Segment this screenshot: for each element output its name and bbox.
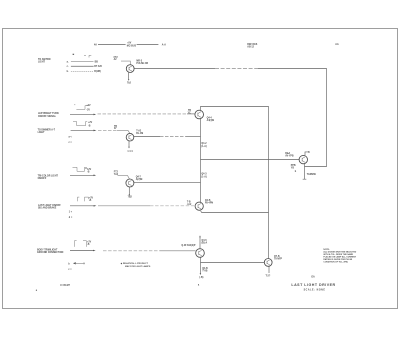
svg-text:BT A/B: BT A/B <box>94 65 102 68</box>
svg-text:AB-12: AB-12 <box>247 45 254 48</box>
svg-text:1 4 4: 1 4 4 <box>127 150 133 153</box>
svg-text:ON/OFF SIGNAL: ON/OFF SIGNAL <box>38 115 57 118</box>
svg-text:BB: BB <box>95 61 99 63</box>
svg-text:A-A: A-A <box>162 44 166 47</box>
svg-text:-2V: -2V <box>86 109 90 111</box>
svg-text:+2V: +2V <box>86 105 91 107</box>
svg-text:4A: 4A <box>94 44 97 47</box>
svg-text:MAY FOR LIGHT LAMPS: MAY FOR LIGHT LAMPS <box>125 265 151 268</box>
svg-text:LIGHT: LIGHT <box>38 132 45 134</box>
svg-text:B(1/B): B(1/B) <box>94 71 101 73</box>
svg-text:-B: -B <box>87 244 90 246</box>
svg-text:A4(4)N: A4(4)N <box>207 119 215 122</box>
svg-text:SIG AND BRAKE: SIG AND BRAKE <box>38 207 57 210</box>
svg-text:-B: -B <box>88 126 91 128</box>
svg-text:A(V)M: A(V)M <box>136 178 143 181</box>
svg-text:/-A2: /-A2 <box>187 203 192 206</box>
svg-text:TARN/W: TARN/W <box>307 173 317 176</box>
svg-text:(B)-A: (B)-A <box>202 241 208 244</box>
svg-text:Q4-3: Q4-3 <box>201 173 207 176</box>
svg-text:(1-A): (1-A) <box>201 145 206 148</box>
svg-text:Q4-2: Q4-2 <box>201 142 207 145</box>
svg-text:CONDITION OF TOL. (PB): CONDITION OF TOL. (PB) <box>323 262 348 264</box>
svg-text:◆ RELATION: L PRODUCT: ◆ RELATION: L PRODUCT <box>120 262 149 265</box>
svg-text:PULSE 2M: PULSE 2M <box>136 63 148 65</box>
svg-text:LAST LIGHT ON/OFF: LAST LIGHT ON/OFF <box>38 204 61 207</box>
svg-text:GROUND CONNECTION: GROUND CONNECTION <box>37 252 64 254</box>
svg-text:7A/VFP: 7A/VFP <box>274 258 283 261</box>
svg-text:TO DIMMER A-T: TO DIMMER A-T <box>38 128 56 131</box>
svg-text:Q-W FH2(2)P: Q-W FH2(2)P <box>181 245 196 247</box>
svg-text:7B2: 7B2 <box>128 197 133 199</box>
svg-text:T-2?: T-2? <box>266 275 271 277</box>
svg-text:GA: GA <box>311 276 315 279</box>
svg-text:C=/B-M?: C=/B-M? <box>60 284 70 287</box>
svg-text:b.: b. <box>67 71 69 73</box>
svg-text:YB: YB <box>291 168 295 170</box>
svg-text:TO AN/TRN: TO AN/TRN <box>38 58 51 61</box>
svg-text:-B: -B <box>89 200 92 202</box>
svg-text:+5V: +5V <box>127 43 132 45</box>
svg-text:YC: YC <box>188 113 192 115</box>
svg-text:SCALE: NONE: SCALE: NONE <box>304 289 326 292</box>
svg-text:AV-4PN: AV-4PN <box>205 202 213 205</box>
svg-text:+2V: +2V <box>88 122 93 124</box>
svg-text:ON/OFF: ON/OFF <box>38 178 47 180</box>
svg-text:(-B): (-B) <box>199 277 203 279</box>
svg-text:MC-BUS: MC-BUS <box>127 45 137 47</box>
svg-text:AV-YPB: AV-YPB <box>285 154 294 157</box>
svg-text:(1-A): (1-A) <box>201 175 206 178</box>
svg-text:AA: AA <box>335 43 339 46</box>
svg-text:7A2: 7A2 <box>114 173 119 176</box>
svg-text:LIGHT: LIGHT <box>38 62 45 64</box>
svg-text:BL-4M: BL-4M <box>136 132 143 135</box>
svg-text:-B: -B <box>87 171 90 173</box>
svg-text:LAST LIGHT DRIVER: LAST LIGHT DRIVER <box>291 283 335 287</box>
svg-text:T-VB: T-VB <box>202 270 208 272</box>
